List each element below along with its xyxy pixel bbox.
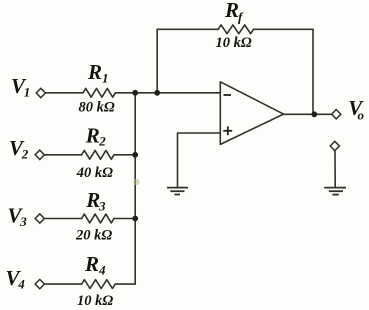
svg-text:f: f [238, 10, 244, 25]
svg-text:3: 3 [19, 214, 27, 229]
op-amp minus pin label [224, 94, 232, 96]
resistor R2 [82, 150, 114, 159]
wire V1 to R1 [46, 92, 84, 94]
wire V2 to R2 [45, 154, 82, 156]
ground (output reference) [324, 188, 346, 195]
wire R3 to bus [114, 218, 135, 220]
node junction dot at R2/bus [132, 152, 138, 158]
node junction dot at R3/bus [132, 216, 138, 222]
svg-text:R: R [84, 252, 99, 276]
svg-text:1: 1 [24, 85, 31, 100]
wire feedback top left [157, 28, 218, 30]
terminal diamond V1 [36, 88, 45, 97]
terminal diamond V2 [35, 150, 44, 159]
wire V4 to R4 [45, 283, 82, 285]
node junction dot at R1/bus [132, 90, 138, 96]
wire feedback top right [253, 28, 313, 30]
terminal diamond V4 [35, 279, 44, 288]
terminal diamond ground reference [330, 141, 339, 150]
resistor R1 [83, 88, 115, 97]
svg-text:10 kΩ: 10 kΩ [216, 35, 252, 51]
terminal diamond Vo [332, 110, 341, 119]
svg-text:o: o [358, 108, 365, 123]
node junction dot at output [311, 111, 317, 117]
svg-text:R: R [85, 124, 100, 148]
op-amp U1 [220, 82, 283, 145]
wire op-amp output [284, 113, 332, 115]
resistor Rf [218, 25, 253, 34]
svg-text:2: 2 [98, 134, 106, 149]
wire R1 to op-amp inverting input [115, 92, 220, 94]
svg-text:80 kΩ: 80 kΩ [79, 100, 115, 116]
wire R4 to bus corner [115, 283, 135, 285]
svg-text:R: R [87, 60, 102, 84]
wire feedback right vertical [312, 29, 314, 114]
resistor R3 [82, 214, 114, 223]
svg-text:4: 4 [17, 277, 25, 292]
svg-text:3: 3 [98, 199, 106, 214]
wire R2 to bus [114, 154, 135, 156]
ground (noninverting input) [167, 188, 188, 195]
op-amp plus pin label [223, 126, 232, 135]
resistor R4 [82, 280, 116, 289]
svg-text:4: 4 [98, 263, 106, 278]
svg-text:R: R [224, 0, 239, 22]
svg-text:1: 1 [102, 70, 109, 85]
wire V3 to R3 [45, 218, 82, 220]
wire bus vertical (summing node) [134, 93, 136, 284]
wire noninverting input [178, 133, 221, 187]
svg-text:10 kΩ: 10 kΩ [77, 293, 113, 309]
svg-text:40 kΩ: 40 kΩ [76, 165, 113, 181]
svg-text:2: 2 [21, 147, 29, 162]
node junction dot at feedback tap [154, 90, 160, 96]
wire Vo terminal to ground [334, 151, 336, 187]
scan smudge artifact [133, 179, 139, 185]
svg-text:20 kΩ: 20 kΩ [75, 228, 112, 244]
wire feedback left vertical [156, 29, 158, 92]
terminal diamond V3 [35, 214, 44, 223]
